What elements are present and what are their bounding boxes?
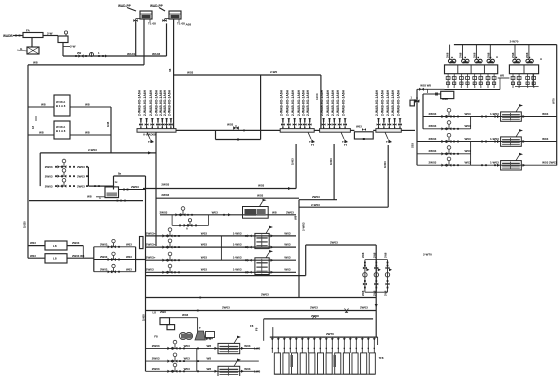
svg-text:B 1 A 8: B 1 A 8 (56, 129, 66, 133)
svg-text:1N8: 1N8 (106, 121, 110, 127)
svg-text:2W03: 2W03 (152, 367, 160, 371)
svg-text:2W03: 2W03 (429, 161, 437, 165)
svg-text:2-W03: 2-W03 (302, 222, 306, 231)
svg-text:1N03: 1N03 (291, 158, 295, 165)
svg-text:W8: W8 (294, 215, 298, 220)
svg-text:2-WAB-8O-1A6H: 2-WAB-8O-1A6H (297, 89, 301, 116)
svg-text:2-W: 2-W (70, 45, 76, 49)
svg-text:W03: W03 (542, 137, 549, 141)
svg-text:1.W8: 1.W8 (254, 346, 261, 350)
svg-text:2-W03: 2-W03 (311, 203, 320, 207)
svg-text:W8: W8 (207, 344, 212, 348)
svg-text:1.W8: 1.W8 (254, 369, 261, 373)
svg-text:W03: W03 (244, 344, 251, 348)
svg-text:W03: W03 (187, 71, 194, 75)
svg-text:W70: W70 (551, 98, 555, 104)
svg-text:W03: W03 (126, 255, 132, 259)
svg-text:2-WAB-8O-1A6H: 2-WAB-8O-1A6H (380, 89, 384, 116)
svg-text:F8: F8 (255, 327, 259, 331)
svg-text:W03: W03 (184, 357, 191, 361)
svg-text:W03: W03 (465, 137, 472, 141)
svg-text:W03: W03 (244, 367, 251, 371)
svg-text:W8: W8 (39, 131, 44, 135)
svg-text:2W03: 2W03 (152, 357, 160, 361)
svg-text:W03: W03 (182, 313, 189, 317)
svg-text:1N20: 1N20 (23, 221, 27, 228)
svg-text:S03: S03 (411, 143, 415, 148)
svg-text:W03: W03 (465, 149, 472, 153)
svg-text:2W03: 2W03 (45, 174, 53, 178)
svg-text:2W8: 2W8 (372, 252, 376, 258)
svg-text:T1-08: T1-08 (177, 22, 185, 26)
svg-text:2W03: 2W03 (100, 242, 108, 246)
svg-text:2-WAB-8O-1A6H: 2-WAB-8O-1A6H (336, 89, 340, 116)
svg-text:W8: W8 (85, 103, 90, 107)
svg-text:2W03>: 2W03> (146, 231, 156, 235)
svg-text:2W03: 2W03 (429, 124, 437, 128)
svg-text:1103: 1103 (315, 93, 319, 100)
svg-text:W08: W08 (442, 97, 448, 101)
svg-text:2W03: 2W03 (77, 174, 85, 178)
svg-text:1-W03: 1-W03 (490, 112, 499, 116)
svg-text:2W8: 2W8 (384, 252, 388, 258)
svg-text:1-W03: 1-W03 (233, 231, 242, 235)
svg-text:W03: W03 (284, 268, 291, 272)
svg-text:2W8: 2W8 (459, 52, 463, 58)
svg-text:2-WAB-8O-1A6H: 2-WAB-8O-1A6H (320, 89, 324, 116)
svg-text:W8: W8 (41, 103, 46, 107)
svg-text:2W8: 2W8 (486, 52, 490, 58)
svg-text:W03 W8: W03 W8 (420, 83, 431, 87)
svg-text:1N03: 1N03 (383, 161, 387, 168)
svg-text:F8: F8 (250, 324, 254, 328)
svg-text:F8: F8 (154, 334, 158, 338)
svg-text:2-WAB-8O-1A6H: 2-WAB-8O-1A6H (375, 89, 379, 116)
svg-text:2W03: 2W03 (286, 210, 294, 214)
svg-text:2W03>: 2W03> (146, 243, 156, 247)
svg-text:W8: W8 (207, 357, 212, 361)
svg-text:W03: W03 (212, 210, 219, 214)
svg-text:A: A (186, 227, 188, 231)
svg-text:A: A (540, 57, 542, 61)
svg-text:2W8: 2W8 (361, 290, 365, 296)
svg-text:W03: W03 (201, 256, 208, 260)
svg-text:2W: 2W (77, 51, 82, 55)
svg-text:W03: W03 (201, 231, 208, 235)
svg-text:W03: W03 (257, 193, 264, 197)
svg-text:2W03: 2W03 (330, 241, 338, 245)
svg-text:2-WAB-8O-1A6H: 2-WAB-8O-1A6H (391, 89, 395, 116)
svg-text:W03: W03 (184, 367, 191, 371)
svg-text:2W03: 2W03 (222, 305, 230, 309)
svg-text:WA03: WA03 (152, 52, 161, 56)
svg-text:1-W03: 1-W03 (490, 161, 499, 165)
svg-text:L8: L8 (53, 244, 57, 248)
svg-text:7F8: 7F8 (379, 356, 384, 360)
svg-text:WA01: WA01 (127, 52, 136, 56)
svg-text:2W03: 2W03 (161, 193, 169, 197)
svg-text:1-W03: 1-W03 (233, 256, 242, 260)
svg-text:W03: W03 (30, 241, 36, 245)
svg-text:WAD-PP: WAD-PP (150, 4, 164, 8)
svg-text:W03: W03 (258, 184, 265, 188)
svg-text:2-WAB-8O-1A6H: 2-WAB-8O-1A6H (137, 89, 141, 116)
svg-text:1N08: 1N08 (141, 314, 145, 321)
svg-text:2-WAB-8O-1A6H: 2-WAB-8O-1A6H (301, 89, 305, 116)
svg-text:2-W70: 2-W70 (423, 253, 432, 257)
svg-text:2W03: 2W03 (45, 184, 53, 188)
svg-text:2W03: 2W03 (77, 184, 85, 188)
svg-text:L8: L8 (53, 257, 57, 261)
svg-text:2-WAB-8O-1A6H: 2-WAB-8O-1A6H (306, 89, 310, 116)
svg-text:W03: W03 (465, 112, 472, 116)
svg-text:W8: W8 (207, 367, 212, 371)
svg-text:2-WAB-8O-1A6H: 2-WAB-8O-1A6H (279, 89, 283, 116)
svg-text:2-WAB-8O-1A6H: 2-WAB-8O-1A6H (285, 89, 289, 116)
svg-text:2W8: 2W8 (160, 310, 166, 314)
svg-text:W03: W03 (465, 161, 472, 165)
svg-text:2W03: 2W03 (160, 210, 168, 214)
svg-text:2W03: 2W03 (100, 255, 108, 259)
svg-text:W03: W03 (30, 254, 36, 258)
svg-text:A-WAD08: A-WAD08 (143, 132, 156, 136)
svg-text:2W03>: 2W03> (146, 256, 156, 260)
svg-text:T: T (199, 326, 201, 330)
svg-text:2-WAB-8O-1A6H: 2-WAB-8O-1A6H (331, 89, 335, 116)
svg-text:W03: W03 (201, 243, 208, 247)
svg-text:2W8: 2W8 (446, 52, 450, 58)
svg-text:2W70: 2W70 (326, 332, 334, 336)
svg-text:2W03: 2W03 (312, 195, 320, 199)
svg-text:T1-08: T1-08 (148, 22, 156, 26)
svg-text:2W03: 2W03 (360, 305, 368, 309)
svg-text:W8: W8 (33, 61, 38, 65)
svg-text:2W8: 2W8 (361, 252, 365, 258)
svg-text:W03: W03 (465, 124, 472, 128)
svg-text:A08: A08 (186, 23, 192, 27)
svg-text:1-W03: 1-W03 (233, 243, 242, 247)
svg-text:W03: W03 (227, 123, 234, 127)
svg-text:WADB: WADB (3, 34, 13, 38)
svg-text:W03: W03 (184, 344, 191, 348)
svg-text:2W03: 2W03 (77, 165, 85, 169)
svg-text:W8: W8 (85, 131, 90, 135)
svg-text:2-W03: 2-W03 (88, 148, 97, 152)
svg-text:2W03: 2W03 (146, 268, 154, 272)
svg-text:18: 18 (31, 125, 35, 129)
svg-text:W03: W03 (201, 268, 208, 272)
svg-text:1-W03: 1-W03 (490, 137, 499, 141)
svg-text:2-WAB-8O-1A6H: 2-WAB-8O-1A6H (167, 89, 171, 116)
svg-text:2-WAB-8O-1A6H: 2-WAB-8O-1A6H (291, 89, 295, 116)
svg-text:2W03: 2W03 (429, 137, 437, 141)
svg-text:1N03: 1N03 (329, 158, 333, 165)
svg-text:2W8: 2W8 (525, 52, 529, 58)
svg-text:W03: W03 (284, 231, 291, 235)
svg-text:WAD-PP: WAD-PP (118, 4, 132, 8)
svg-text:W8: W8 (500, 74, 504, 78)
svg-text:2W8: 2W8 (511, 52, 515, 58)
svg-text:B 1 A 8: B 1 A 8 (56, 104, 66, 108)
svg-text:2W03: 2W03 (161, 183, 169, 187)
svg-text:2-WAB-8O-1A6H: 2-WAB-8O-1A6H (397, 89, 401, 116)
svg-text:W8: W8 (272, 210, 277, 214)
svg-text:W03: W03 (126, 267, 132, 271)
svg-text:2W08: 2W08 (311, 314, 319, 318)
svg-text:2W03: 2W03 (100, 267, 108, 271)
svg-text:2W03: 2W03 (72, 241, 80, 245)
svg-text:2-WAB-8O-1A6H: 2-WAB-8O-1A6H (149, 89, 153, 116)
svg-text:W03: W03 (126, 242, 132, 246)
svg-text:2W8: 2W8 (372, 290, 376, 296)
svg-text:2W03 W8: 2W03 W8 (72, 254, 85, 258)
svg-text:2W03: 2W03 (45, 165, 53, 169)
svg-text:2-WAB-8O-1A6H: 2-WAB-8O-1A6H (342, 89, 346, 116)
svg-text:W8: W8 (87, 195, 92, 199)
svg-text:W03: W03 (356, 125, 362, 129)
svg-text:L8: L8 (153, 310, 157, 314)
svg-text:2W03: 2W03 (152, 344, 160, 348)
svg-text:2W03: 2W03 (261, 292, 269, 296)
svg-text:A: A (496, 55, 498, 59)
svg-text:W03: W03 (542, 112, 549, 116)
svg-text:08: 08 (168, 68, 172, 72)
svg-text:2-WAB-8O-1A6H: 2-WAB-8O-1A6H (143, 89, 147, 116)
svg-text:2W8: 2W8 (384, 290, 388, 296)
svg-text:W03: W03 (284, 243, 291, 247)
svg-text:W03: W03 (284, 256, 291, 260)
svg-text:2W03: 2W03 (131, 185, 139, 189)
svg-text:2-W70: 2-W70 (510, 40, 519, 44)
svg-text:2-WAB-8O-1A6H: 2-WAB-8O-1A6H (326, 89, 330, 116)
svg-text:2W8: 2W8 (472, 52, 476, 58)
svg-text:2W03: 2W03 (549, 161, 557, 165)
svg-text:2-W: 2-W (47, 32, 53, 36)
svg-text:2-W0: 2-W0 (270, 70, 277, 74)
svg-text:2W03: 2W03 (310, 305, 318, 309)
svg-text:2W03: 2W03 (429, 112, 437, 116)
svg-text:2W03: 2W03 (429, 149, 437, 153)
svg-text:2-WAB-8O-1A6H: 2-WAB-8O-1A6H (386, 89, 390, 116)
svg-text:1-W03: 1-W03 (233, 268, 242, 272)
svg-text:W03: W03 (542, 161, 549, 165)
svg-text:8a: 8a (118, 172, 122, 176)
